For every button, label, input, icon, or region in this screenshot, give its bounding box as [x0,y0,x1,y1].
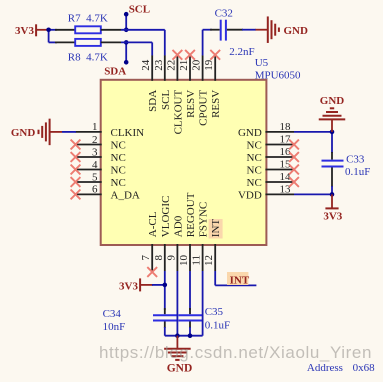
svg-text:GND: GND [284,25,309,37]
svg-text:RESV: RESV [185,90,197,118]
no-ERC mark pin 7 [147,267,157,277]
wire pin 12 INT [215,271,256,285]
svg-text:RESV: RESV [210,90,222,118]
no-ERC mark pin 2 [71,140,81,150]
wire SCL: R7 to pin 23 [121,30,165,56]
svg-text:24: 24 [140,59,152,71]
svg-text:13: 13 [280,184,292,196]
svg-text:INT: INT [210,219,222,238]
capacitor C34 10nF [103,308,177,333]
svg-text:Address: Address [307,362,343,374]
wire pin 20 CPOUT up to C32 [203,30,212,56]
svg-text:6: 6 [92,184,98,196]
svg-text:3V3: 3V3 [119,281,138,293]
no-ERC mark pin 5 [71,177,81,187]
wire C33 bottom to pin 13 VDD [294,186,332,194]
capacitor C33 0.1uF [322,152,371,187]
pin 6 A_DA [76,184,140,202]
junction pin18/GND/C33 [330,130,335,135]
svg-text:C33: C33 [346,154,365,166]
svg-text:GND: GND [320,95,345,107]
svg-text:20: 20 [191,59,203,71]
svg-text:21: 21 [178,60,190,71]
svg-text:AD0: AD0 [172,215,184,237]
svg-text:4: 4 [92,159,98,171]
pin 12 INT [203,219,222,271]
pin 9 AD0 [165,215,184,271]
value label MPU6050 [255,70,301,82]
pin 14 NC [247,171,294,189]
ground rail wire [165,335,203,337]
wire pin 9 AD0 to ground rail [176,271,178,336]
svg-text:0.1uF: 0.1uF [205,319,230,331]
no-ERC mark pin 21 [185,50,195,60]
svg-text:VLOGIC: VLOGIC [160,196,172,238]
pin 15 NC [247,159,294,177]
svg-text:REGOUT: REGOUT [185,192,197,237]
pin 19 RESV [203,55,222,118]
capacitor C35 0.1uF [178,306,230,331]
wire 3V3 to pin 8 [152,284,165,286]
designator U5 [255,57,269,69]
svg-text:C35: C35 [205,306,224,318]
svg-text:NC: NC [247,140,262,152]
wire pin 11 FSYNC to ground rail [202,271,204,336]
pin 8 VLOGIC [153,196,172,271]
svg-text:SDA: SDA [104,66,126,78]
pin 20 CPOUT [191,55,210,126]
no-ERC mark pin 22 [173,50,183,60]
pin 7 A-CL [140,211,159,271]
svg-text:A-CL: A-CL [147,211,159,237]
junction 3V3/pin8 [163,283,168,288]
svg-text:CLKOUT: CLKOUT [172,90,184,135]
svg-text:7: 7 [140,255,152,261]
svg-text:INT: INT [230,274,250,286]
wire pin 10 REGOUT down [189,271,191,310]
svg-text:GND: GND [167,363,193,375]
no-ERC mark pin 6 [71,190,81,200]
wire 3V3 to R7/R8 junction [48,30,50,43]
net label SDA [104,42,128,77]
no-ERC mark pin 17 [289,140,299,150]
svg-text:R7 4.7K: R7 4.7K [68,13,108,25]
svg-text:https://blog.csdn.net/Xiaolu_Y: https://blog.csdn.net/Xiaolu_Yiren [99,343,372,362]
resistor R7 4.7K [49,13,121,34]
wire SDA: R8 to pin 24 [121,42,152,55]
svg-text:R8 4.7K: R8 4.7K [68,52,108,64]
svg-text:19: 19 [203,59,215,71]
svg-text:SDA: SDA [147,90,159,112]
power ground GND (pin 1 CLKIN) [11,119,62,145]
no-ERC mark pin 14 [289,177,299,187]
junction C33/pin13/3V3 [330,192,335,197]
svg-text:10nF: 10nF [103,321,126,333]
pin 11 FSYNC [191,202,210,271]
power ground GND (top right, horizontal) [256,16,309,43]
svg-text:A_DA: A_DA [111,189,140,201]
svg-text:CLKIN: CLKIN [111,127,145,139]
pin 17 NC [247,134,294,152]
junction SDA stub / R8 wire [124,40,129,45]
pin 2 NC [76,134,126,152]
highlight box on pin name INT [209,219,223,239]
wire GND to pin 1 [62,131,76,133]
svg-text:11: 11 [191,255,203,266]
svg-text:SCL: SCL [129,4,150,16]
svg-text:3: 3 [92,146,98,158]
power port 3V3 (top left) [15,24,49,37]
pin 13 VDD [238,184,294,202]
power ground GND (bottom) [164,336,192,375]
svg-text:GND: GND [238,127,262,139]
svg-text:NC: NC [111,165,126,177]
svg-text:0.1uF: 0.1uF [345,166,370,178]
pin 18 GND [238,121,294,139]
svg-text:NC: NC [247,152,262,164]
svg-text:9: 9 [165,255,177,261]
svg-text:8: 8 [153,255,165,261]
svg-text:0x68: 0x68 [353,362,376,374]
svg-text:3V3: 3V3 [15,25,34,37]
text Address 0x68 [307,362,375,374]
svg-text:C34: C34 [103,308,122,320]
IC U5 MPU6050 body [101,80,267,245]
no-ERC mark pin 16 [289,152,299,162]
no-ERC mark pin 4 [71,165,81,175]
no-ERC mark pin 19 [210,50,220,60]
no-ERC mark pin 15 [289,165,299,175]
svg-text:2.2nF: 2.2nF [229,46,254,58]
svg-text:10: 10 [178,255,190,267]
pin 5 NC [76,171,126,189]
resistor R8 4.7K [49,39,121,64]
watermark [99,343,372,362]
power ground GND (right, earth up) [319,95,346,132]
svg-text:NC: NC [111,177,126,189]
svg-text:23: 23 [153,59,165,71]
svg-text:FSYNC: FSYNC [198,202,210,237]
junction rail/C35 [188,333,193,338]
junction 3V3/R7/R8 [46,28,51,33]
svg-text:1: 1 [92,121,98,133]
pin 24 SDA [140,55,159,112]
net label INT (highlighted) [227,272,250,286]
wire pin 18 GND to vertical [294,132,332,153]
svg-text:U5: U5 [255,57,269,69]
svg-text:SCL: SCL [160,90,172,110]
svg-text:5: 5 [92,171,98,183]
pin 4 NC [76,159,126,177]
no-ERC mark pin 3 [71,152,81,162]
net label SCL [124,4,150,30]
junction rail/pin9/GND [175,333,180,338]
svg-text:C32: C32 [215,7,233,19]
svg-text:NC: NC [111,140,126,152]
wire C35 to ground rail [189,327,191,336]
pin 10 REGOUT [178,192,197,271]
svg-text:NC: NC [111,152,126,164]
power port 3V3 (bottom left) [119,278,153,292]
svg-text:22: 22 [165,60,177,71]
pin 21 RESV [178,55,197,118]
svg-text:VDD: VDD [238,189,262,201]
svg-text:3V3: 3V3 [323,211,342,223]
svg-text:NC: NC [247,177,262,189]
svg-text:MPU6050: MPU6050 [255,70,301,82]
junction SCL stub / R7 wire [124,28,129,33]
capacitor C32 2.2nF [210,7,255,58]
svg-text:GND: GND [11,127,36,139]
pin 16 NC [247,146,294,164]
wire C32 to GND [242,29,256,31]
pin 1 CLKIN [76,121,145,139]
pin 22 CLKOUT [165,55,184,134]
svg-text:12: 12 [203,255,215,266]
wire pin 8 VLOGIC down [164,271,166,310]
power port 3V3 (right) [323,194,342,222]
pin 3 NC [76,146,126,164]
svg-text:18: 18 [280,121,292,133]
wire C34 to ground rail [164,327,166,336]
pin 23 SCL [153,55,172,110]
svg-text:NC: NC [247,165,262,177]
svg-text:CPOUT: CPOUT [198,90,210,126]
svg-text:2: 2 [92,134,98,146]
